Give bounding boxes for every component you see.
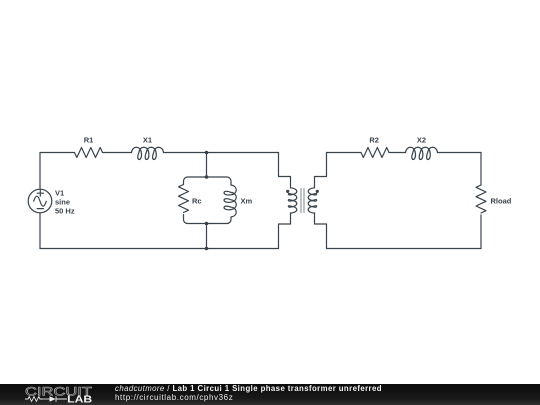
wire X1 to transformer primary rail [164, 152, 279, 154]
inductor X1 [132, 147, 164, 159]
wire bottom rail right [327, 248, 482, 250]
voltage source V1 [28, 189, 52, 213]
wire branch stub bottom [206, 224, 208, 249]
svg-text:Xm: Xm [241, 197, 253, 206]
wire transformer secondary connections [315, 153, 327, 249]
wire transformer primary connections [279, 153, 291, 249]
svg-text:50 Hz: 50 Hz [55, 207, 75, 216]
wire top rail left: V1 to R1 [40, 152, 75, 154]
label X1 [143, 136, 152, 145]
wire right rail bottom lead [480, 215, 482, 249]
inductor Xm [224, 185, 236, 217]
CircuitLab logo wordmark [0, 384, 110, 405]
wire top rail right: to R2 [327, 152, 362, 154]
wire R2 to X2 [389, 152, 406, 154]
wire parallel box frame [184, 177, 232, 224]
resistor Rload [476, 185, 486, 213]
inductor X2 [406, 147, 438, 159]
wire V1 top lead [39, 153, 41, 190]
resistor Rc [179, 185, 189, 213]
svg-text:LAB: LAB [67, 395, 92, 405]
wire V1 bottom lead [39, 213, 41, 249]
wire branch stub top [206, 153, 208, 178]
label Xm [241, 197, 253, 206]
footer title text [115, 384, 382, 393]
label Rload [491, 197, 512, 206]
node junction top of magnetizing branch [205, 151, 209, 155]
wire X2 to right rail [438, 152, 482, 154]
wire right rail top lead [480, 153, 482, 186]
svg-text:R2: R2 [369, 136, 379, 145]
node junction bottom of parallel box [205, 222, 209, 226]
resistor R1 [75, 148, 103, 158]
label R1 [84, 136, 94, 145]
svg-text:V1: V1 [55, 189, 64, 198]
node junction bottom rail [205, 247, 209, 251]
transformer T1 secondary winding [308, 188, 316, 213]
transformer T1 secondary polarity dot [316, 190, 319, 193]
svg-text:Rload: Rload [491, 197, 512, 206]
wire R1 to X1 [103, 152, 132, 154]
resistor R2 [361, 148, 389, 158]
transformer T1 core [301, 189, 304, 213]
footer url text [115, 393, 233, 402]
transformer T1 primary winding [288, 188, 296, 213]
node junction top of parallel box [205, 175, 209, 179]
label V1 sine 50 Hz [55, 189, 75, 216]
label X2 [417, 136, 426, 145]
label Rc [192, 197, 202, 206]
svg-text:X2: X2 [417, 136, 426, 145]
transformer T1 primary polarity dot [286, 190, 289, 193]
svg-text:Rc: Rc [192, 197, 202, 206]
svg-text:X1: X1 [143, 136, 152, 145]
label R2 [369, 136, 379, 145]
svg-text:sine: sine [55, 198, 70, 207]
footer bar [0, 384, 540, 405]
wire bottom rail left [40, 248, 279, 250]
svg-text:R1: R1 [84, 136, 94, 145]
